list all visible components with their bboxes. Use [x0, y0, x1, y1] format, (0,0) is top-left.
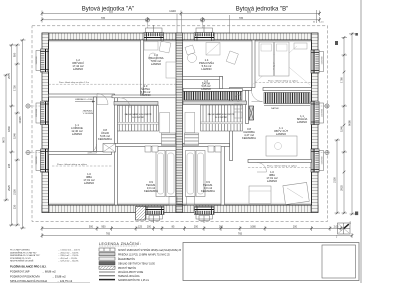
exterior wall inner face lines — [49, 39, 312, 41]
svg-text:1500/900: 1500/900 — [36, 109, 38, 117]
bath A shower — [166, 151, 176, 197]
room label 1.4A pracovna — [148, 53, 163, 66]
svg-text:LAMINO: LAMINO — [201, 88, 211, 91]
window right wall 3 — [311, 149, 324, 172]
furniture wc unit B hall — [235, 94, 240, 101]
svg-text:200: 200 — [219, 225, 224, 228]
svg-text:ZASTAVĚNÁ PLOCHA "RD": ZASTAVĚNÁ PLOCHA "RD" — [10, 251, 37, 254]
svg-text:Pozn.: šikmé stěny ve výšce: Pozn.: šikmé stěny ve výšce — [268, 79, 299, 82]
svg-text:1760: 1760 — [340, 77, 344, 83]
top dimension line 1 — [42, 11, 320, 17]
window bottom wall A — [145, 207, 165, 220]
svg-text:... 295,0 m2 ... 23,0%: ... 295,0 m2 ... 23,0% — [58, 255, 78, 257]
exterior wall right — [312, 33, 319, 213]
room label 0.9A technika — [144, 180, 158, 193]
svg-text:PODKROVÍ 1NP: PODKROVÍ 1NP — [10, 270, 30, 274]
svg-text:925: 925 — [247, 11, 252, 14]
svg-text:... 122,75 m2: ... 122,75 m2 — [57, 279, 73, 283]
svg-text:PROSTÝ BETÓN: PROSTÝ BETÓN — [118, 267, 136, 270]
marker leader dashes left lower — [30, 152, 42, 154]
svg-text:... 68,86 m2: ... 68,86 m2 — [42, 270, 56, 274]
sill mark below bottom window B — [199, 216, 210, 221]
north arrow symbol — [338, 223, 351, 234]
shelf dense band unit B — [184, 92, 243, 101]
svg-text:16 STUPŇŮ: 16 STUPŇŮ — [132, 116, 144, 119]
svg-text:+0,5: +0,5 — [320, 21, 324, 23]
closet hatch band unit B — [264, 93, 310, 104]
room label 1.4B pracovna — [199, 58, 214, 71]
svg-text:1540: 1540 — [13, 133, 17, 139]
window left wall 1 — [36, 49, 49, 72]
furniture desk room 1.0B — [283, 182, 309, 204]
svg-text:LAMINO: LAMINO — [276, 132, 286, 136]
right dimension line 1 — [335, 140, 341, 213]
furniture armchair room 1.4B right — [226, 51, 238, 64]
sill mark below bottom window A — [149, 216, 160, 221]
interior wall B stair head gray — [183, 101, 247, 105]
svg-text:KERAMIKA: KERAMIKA — [201, 189, 215, 193]
legend row 3 reinforced concrete — [99, 257, 115, 260]
interior wall B horizontal main — [230, 88, 252, 91]
interior wall B bath top — [183, 144, 230, 147]
svg-text:1500/900: 1500/900 — [322, 109, 324, 117]
svg-text:LAMINO: LAMINO — [151, 62, 161, 66]
svg-text:130: 130 — [13, 204, 17, 209]
svg-text:2575: 2575 — [7, 73, 11, 79]
svg-text:... 205,0 m2 ... 53,0%: ... 205,0 m2 ... 53,0% — [58, 252, 78, 254]
title block outer box — [183, 243, 359, 281]
legend row 7 thermal insulation — [99, 275, 115, 277]
room label 0.8A uklid — [98, 128, 112, 141]
axis circle-cross marker right wall lower — [325, 150, 329, 154]
stair A treads — [118, 106, 159, 132]
svg-text:... 527,4 m2 ... 60,4%: ... 527,4 m2 ... 60,4% — [58, 261, 78, 263]
svg-text:LAMINO: LAMINO — [73, 67, 83, 71]
room label 1.2B spalna — [263, 58, 275, 71]
room label 1.0B izba — [266, 170, 278, 183]
room label 1.0A spaci pokoj — [83, 172, 95, 185]
extension line top right corner — [315, 10, 317, 23]
furniture chair room 1.4A — [159, 41, 171, 53]
washer boxes bath A — [145, 146, 151, 152]
legend row 6 waterproofing — [99, 271, 115, 273]
room label 1.1B obyv — [274, 126, 288, 136]
level block wall corner — [335, 41, 338, 45]
window bottom wall B — [195, 207, 215, 220]
svg-text:KERAMIKA: KERAMIKA — [144, 189, 158, 193]
interior wall B 1.3 side — [220, 77, 223, 89]
chimney flue unit B — [249, 106, 254, 120]
interior wall B horizontal lower — [248, 160, 312, 163]
marker leader dashes left upper — [30, 105, 42, 107]
svg-text:Pozn.: šikmé stěny ve výšce: Pozn.: šikmé stěny ve výšce — [57, 163, 88, 166]
svg-text:LAMINO: LAMINO — [267, 179, 277, 183]
bath B tub — [186, 151, 196, 197]
vent tick above top window A — [153, 25, 155, 33]
grid dashed drop right — [202, 23, 204, 33]
svg-text:LAMINO: LAMINO — [201, 67, 211, 71]
svg-text:ŽELEZOBETÓN: ŽELEZOBETÓN — [118, 258, 135, 261]
svg-text:1540: 1540 — [340, 126, 344, 132]
svg-text:1500/900: 1500/900 — [36, 157, 38, 165]
window right wall 1 — [311, 50, 324, 73]
title block inner box — [322, 245, 356, 278]
interior wall B between 1.4 and 1.3 — [183, 77, 223, 80]
roof slope diagonal room 1.2B — [252, 46, 297, 85]
exterior wall left — [42, 33, 49, 213]
svg-text:200: 200 — [147, 225, 152, 228]
stair B landing rect — [185, 112, 195, 132]
interior wall A vertical between living and work room — [141, 40, 144, 94]
right dimension line 3 — [349, 33, 355, 214]
room label 1.3B satna — [201, 80, 211, 91]
svg-text:PODKROVÍ PODKROVÍA: PODKROVÍ PODKROVÍA — [10, 274, 40, 278]
furniture table room 1.4A — [149, 53, 157, 61]
svg-text:NEZPEVNĚNÉ ZELENĚ: NEZPEVNĚNÉ ZELENĚ — [10, 260, 34, 263]
furniture table room 1.4B — [188, 54, 197, 63]
bath A tub — [156, 151, 165, 197]
bottom dimension line 1 — [42, 226, 341, 231]
svg-text:IZOLÁCIA PROTI VODE: IZOLÁCIA PROTI VODE — [118, 271, 144, 274]
closet band base line — [264, 105, 310, 107]
tech box unit A — [103, 144, 116, 153]
svg-text:ŠATNÍK: ŠATNÍK — [271, 107, 279, 110]
svg-text:LAMINO: LAMINO — [84, 181, 94, 185]
svg-text:705: 705 — [239, 17, 244, 20]
axis marker right of centre — [200, 18, 204, 22]
stair B handrail band — [201, 122, 243, 124]
top dimension line 2 — [42, 17, 320, 23]
room label 1.1B spalna lower right — [297, 114, 308, 124]
furniture bed 1 room 1.2B — [259, 42, 274, 76]
stair A landing rect — [160, 112, 170, 132]
note dashed line room 1.2 — [49, 83, 176, 85]
svg-text:Bytová jednotka "B": Bytová jednotka "B" — [236, 7, 289, 13]
legend row 5 plain concrete — [99, 266, 115, 269]
interior wall B vertical bath/room — [221, 145, 225, 206]
svg-text:925: 925 — [109, 11, 114, 14]
grid dashed drop left — [147, 23, 149, 33]
pocket door marks under party wall bottom — [169, 197, 177, 206]
svg-text:... 1 118,0 m2 ... 100 %: ... 1 118,0 m2 ... 100 % — [58, 250, 80, 252]
stair A lower flight comb — [162, 133, 176, 146]
svg-text:ZÁBRADLÍ v.1000: ZÁBRADLÍ v.1000 — [75, 98, 93, 101]
furniture desk room 1.1B — [266, 136, 297, 156]
bath B shower — [196, 151, 205, 197]
washer boxes bath B — [208, 146, 214, 152]
svg-text:1500/900: 1500/900 — [322, 157, 324, 165]
sheet frame line right — [360, 0, 362, 283]
svg-text:200: 200 — [194, 225, 199, 228]
room label 0.9B technika — [201, 180, 215, 193]
svg-text:Pozn.: šikmé stěny ve výšce 1,: Pozn.: šikmé stěny ve výšce 1,3 m — [59, 81, 89, 84]
svg-text:950: 950 — [13, 52, 17, 57]
furniture desk room 1.4A — [166, 62, 176, 78]
room label 0.8B chodba — [242, 127, 256, 140]
svg-text:LAMINO: LAMINO — [72, 132, 82, 136]
stair B lower flight comb — [185, 133, 199, 146]
vent tick below bottom window A — [153, 216, 155, 224]
legend row 2 partition — [99, 253, 115, 256]
svg-text:705: 705 — [101, 17, 106, 20]
interior wall A vertical corridor left — [94, 97, 97, 152]
room label 1.2 obyvaci pokoj — [72, 58, 84, 71]
interior wall A horizontal bedroom — [49, 152, 112, 155]
svg-text:2925: 2925 — [340, 185, 344, 191]
svg-text:ZACHOVANÉ SCHODIŠTĚ: ZACHOVANÉ SCHODIŠTĚ — [125, 113, 152, 116]
furniture sofa room 1.4B — [206, 43, 220, 56]
svg-text:1750: 1750 — [13, 85, 17, 91]
furniture nightstand room 1.2B — [294, 43, 307, 49]
furniture chair room 1.4B — [185, 45, 195, 55]
svg-text:KERAMIKA: KERAMIKA — [98, 137, 112, 141]
interior wall B vertical bath — [246, 91, 249, 124]
svg-text:ZACHOVANÉ SCHODIŠTĚ: ZACHOVANÉ SCHODIŠTĚ — [208, 113, 235, 116]
svg-text:765: 765 — [238, 232, 243, 235]
svg-text:765: 765 — [106, 232, 111, 235]
legend row 1 masonry — [99, 248, 115, 251]
svg-text:9675: 9675 — [2, 137, 6, 143]
level square top right dim — [355, 33, 358, 36]
stair B treads — [201, 105, 243, 131]
door arc hall B — [252, 91, 263, 102]
furniture bed 2 room 1.2B — [275, 42, 290, 76]
svg-text:200: 200 — [293, 225, 298, 228]
window top wall B — [195, 28, 215, 41]
left dimension line 2 — [9, 45, 15, 225]
window left wall 3 — [36, 149, 49, 172]
svg-text:1840: 1840 — [7, 126, 11, 132]
svg-text:2150: 2150 — [13, 189, 17, 195]
interior wall B above shelf band — [183, 89, 243, 92]
vent tick above top window B — [203, 25, 205, 33]
roof slope diagonal room 1.2B second — [264, 46, 310, 85]
furniture sink unit B hall — [234, 112, 242, 118]
svg-text:PLOCHA POZEMKU: PLOCHA POZEMKU — [10, 249, 30, 252]
interior wall A vertical corridor right — [115, 97, 118, 205]
svg-text:OBKLAD OBYTNÝCH TEHLY 10/20: OBKLAD OBYTNÝCH TEHLY 10/20 — [118, 263, 156, 266]
right dimension line 2 — [342, 38, 348, 214]
axis circle-cross marker left wall upper — [26, 104, 30, 108]
svg-text:PRIEČKA 11,5 P25, 10 BRM NA MP: PRIEČKA 11,5 P25, 10 BRM NA MPL T10 MVC … — [118, 254, 170, 257]
svg-text:SADROKARTÓN HR. 1,25 cm: SADROKARTÓN HR. 1,25 cm — [118, 279, 149, 282]
door arc corridor A — [97, 94, 108, 105]
svg-text:Pozn.: šikmé stěny ve výšce: Pozn.: šikmé stěny ve výšce — [267, 164, 298, 167]
svg-text:SPOLU PODLAHOVÁ PLOCHA: SPOLU PODLAHOVÁ PLOCHA — [10, 279, 47, 283]
interior wall A stair head gray — [114, 102, 158, 106]
svg-text:... 45,0 m2 ... 23,0%: ... 45,0 m2 ... 23,0% — [58, 258, 77, 260]
svg-text:V.1000MM: V.1000MM — [83, 113, 94, 115]
svg-text:KERAMIKA: KERAMIKA — [242, 136, 256, 140]
interior wall B vertical hall left — [230, 91, 233, 161]
svg-text:1500/900: 1500/900 — [322, 57, 324, 65]
svg-text:1500/900: 1500/900 — [36, 57, 38, 65]
bottom dimension line 2 — [42, 233, 352, 238]
note dashed line room 1.2B — [255, 82, 312, 84]
room label 1.1A loznice — [71, 123, 83, 136]
inner wall finish line top — [49, 41, 312, 43]
interior wall A horizontal main — [49, 94, 115, 97]
svg-text:LEGENDA ZNAČENÍ:: LEGENDA ZNAČENÍ: — [99, 241, 141, 246]
vent tick below bottom window B — [203, 216, 205, 224]
party wall centre — [176, 33, 183, 213]
axis marker left of centre — [145, 18, 149, 22]
furniture sofa room 1.4A — [144, 41, 158, 50]
roof overhang dashed outline — [32, 26, 328, 222]
left dimension line 3 — [15, 45, 21, 225]
inner wall finish line bottom — [49, 202, 312, 204]
svg-text:ZASTAVĚNÁ PLOCHA ZA "RD": ZASTAVĚNÁ PLOCHA ZA "RD" — [10, 254, 40, 257]
interior wall A bath top — [115, 144, 177, 147]
svg-text:1420: 1420 — [169, 9, 176, 13]
chimney block bottom wall A — [136, 207, 146, 221]
door arc bedroom A — [88, 144, 97, 153]
stair A handrail band — [118, 122, 159, 124]
svg-text:500: 500 — [89, 225, 94, 228]
axis circle-cross marker left wall lower — [26, 150, 30, 154]
legend row 4 cladding — [99, 262, 115, 265]
svg-text:16 STUPŇŮ: 16 STUPŇŮ — [215, 116, 227, 119]
exterior wall top — [42, 33, 318, 40]
svg-text:9080: 9080 — [348, 120, 352, 126]
extension line grid B — [229, 15, 231, 33]
left dimension line 4 — [20, 40, 26, 228]
area statistics block — [10, 249, 80, 263]
svg-text:... 53,88 m2: ... 53,88 m2 — [52, 274, 66, 278]
svg-text:125: 125 — [138, 225, 143, 228]
svg-text:2925: 2925 — [7, 185, 11, 191]
svg-text:LAMINO: LAMINO — [140, 93, 150, 97]
door arc stair A entry — [120, 98, 130, 108]
left dimension line 1 — [4, 75, 10, 200]
svg-text:950: 950 — [101, 225, 106, 228]
svg-text:2,05: 2,05 — [334, 225, 339, 228]
svg-text:LAMINO: LAMINO — [297, 120, 307, 124]
level mark glyph — [355, 212, 358, 216]
svg-text:TEPELNÁ IZOLÁCIA: TEPELNÁ IZOLÁCIA — [118, 275, 140, 278]
interior wall B top partition — [252, 40, 255, 88]
interior wall A above stairwell — [112, 95, 176, 98]
furniture bed room 1.0B — [249, 186, 271, 204]
svg-text:1080: 1080 — [250, 225, 256, 228]
extension lines party wall top — [176, 14, 178, 33]
svg-text:ZPEVNĚNÉ PLOCHY: ZPEVNĚNÉ PLOCHY — [10, 257, 32, 260]
room label 1.3A satna — [140, 84, 151, 97]
note dashed line room 1.0A — [52, 165, 112, 167]
marker leader dashes right upper — [318, 105, 325, 107]
window left wall 2 — [36, 102, 49, 125]
door arc room B lower — [257, 163, 267, 173]
note dashed line room 1.0B — [248, 167, 312, 169]
svg-text:245: 245 — [7, 163, 11, 168]
svg-text:NOSNÝ MUROVANÝ SYSTÉM 10NP(a n: NOSNÝ MUROVANÝ SYSTÉM 10NP(a nad) NAJ(ĽU… — [118, 249, 182, 252]
svg-text:10405: 10405 — [18, 116, 22, 124]
svg-text:2150: 2150 — [333, 177, 337, 183]
railing note arrow unit A — [75, 101, 95, 103]
window right wall 2 — [311, 102, 324, 125]
marker leader dashes right lower — [318, 152, 325, 154]
svg-text:60: 60 — [313, 21, 315, 23]
axis circle-cross marker right wall upper — [325, 104, 329, 108]
exterior wall bottom — [42, 205, 318, 213]
window top wall A — [144, 28, 164, 41]
legend row 8 plasterboard — [99, 279, 115, 281]
